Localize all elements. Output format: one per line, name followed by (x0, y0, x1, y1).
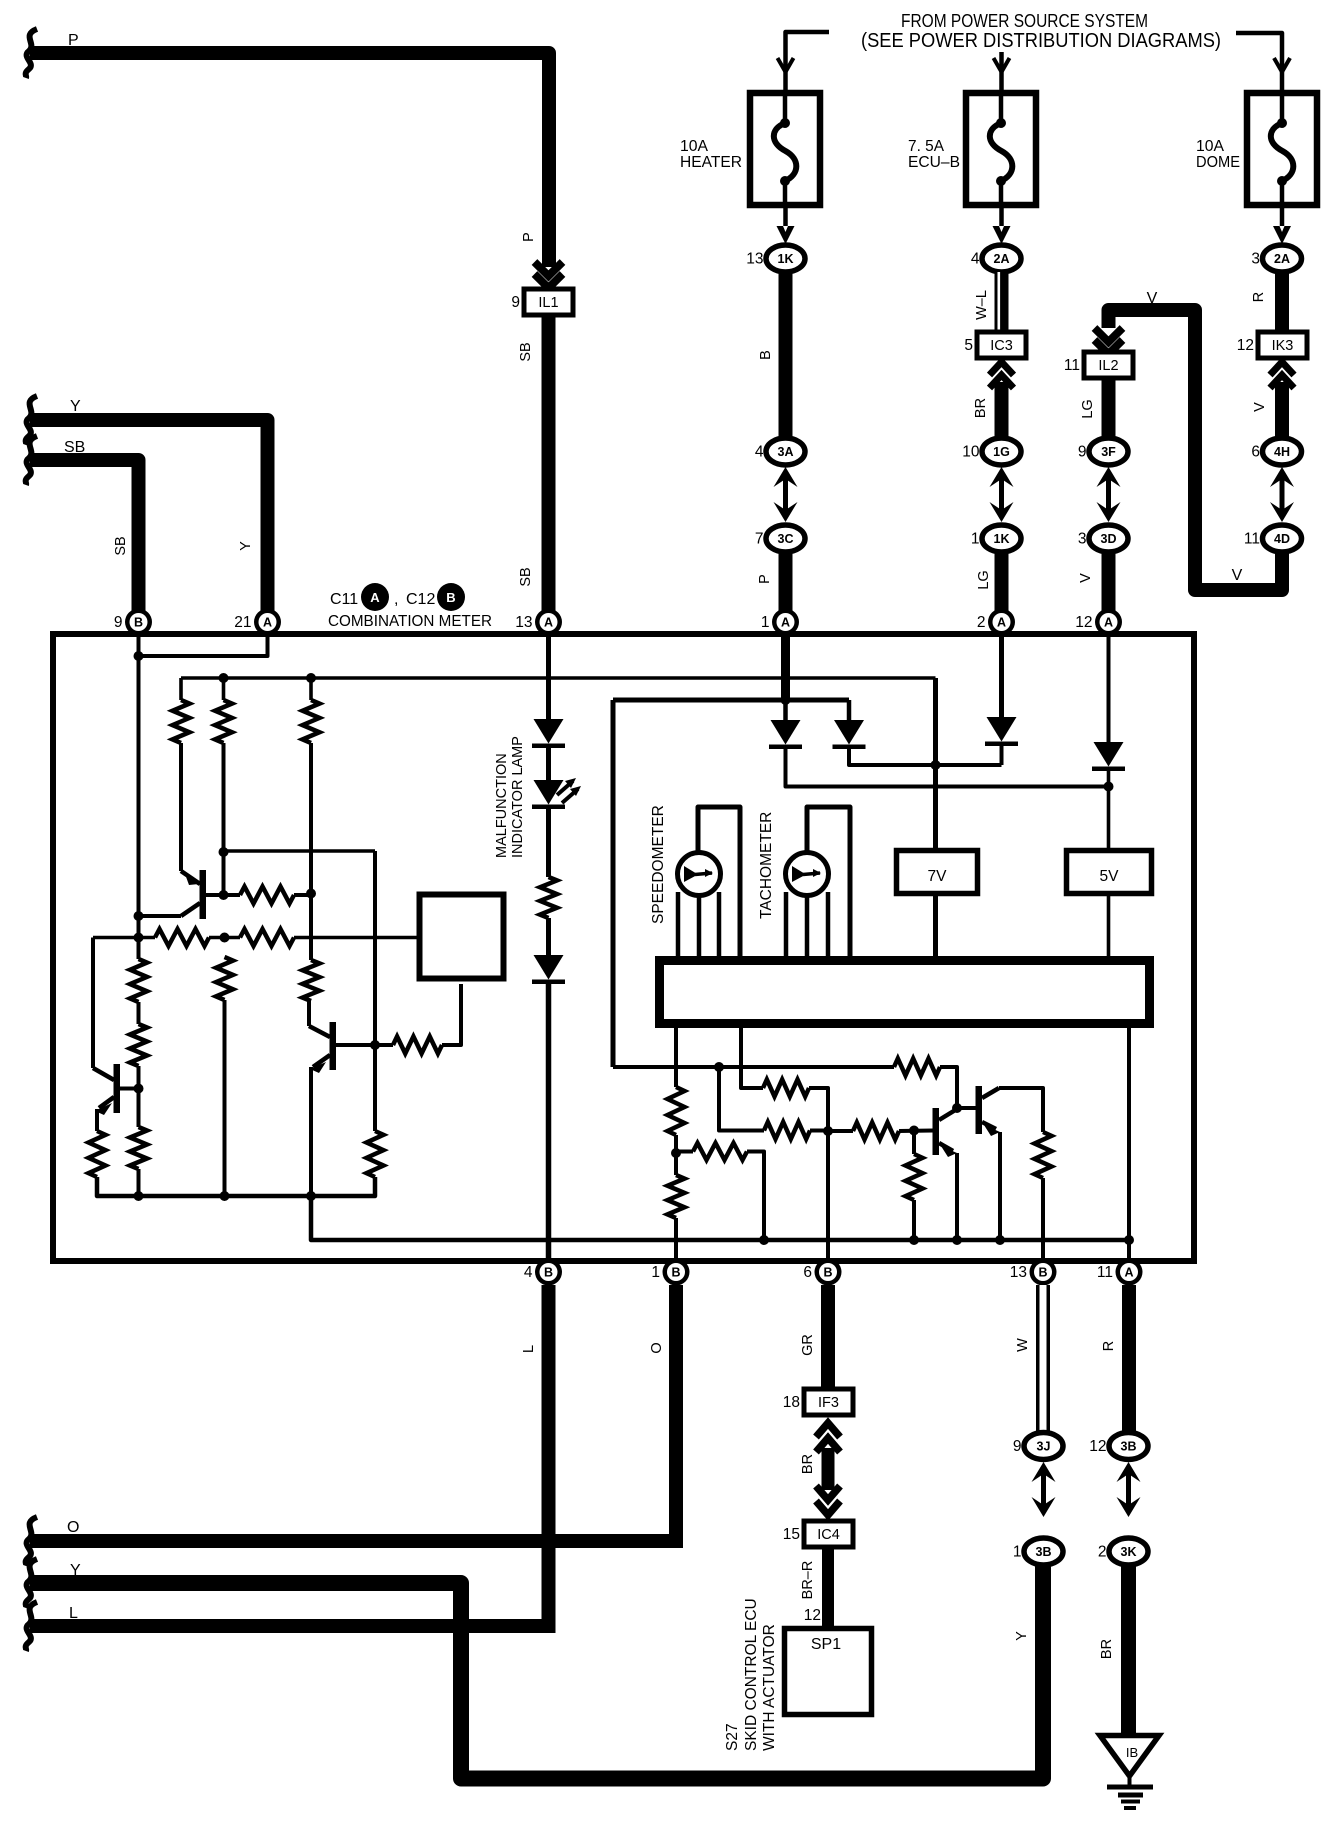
svg-text:A: A (781, 616, 790, 630)
svg-text:4: 4 (524, 1264, 533, 1281)
svg-text:LG: LG (976, 570, 992, 589)
svg-text:1: 1 (761, 614, 770, 631)
svg-text:21: 21 (234, 614, 251, 631)
svg-text:P: P (521, 232, 537, 242)
svg-text:7V: 7V (928, 868, 948, 885)
feed wire to fuse HEATER (786, 32, 830, 92)
svg-text:9: 9 (1013, 1438, 1022, 1455)
fuse 10A DOME (1247, 93, 1317, 205)
svg-text:S27: S27 (724, 1723, 741, 1751)
svg-text:P: P (68, 32, 79, 49)
mating arrows between 3B and 3K (1117, 1462, 1141, 1517)
diode D3 under 1-A (769, 700, 802, 749)
wire divider to rail (909, 1200, 919, 1245)
wire R1 to Q1 emitter (179, 743, 183, 871)
resistor y1130 right (853, 1123, 899, 1140)
transistor Q1 (PNP) (181, 870, 206, 919)
label COMBINATION METER (328, 613, 492, 630)
label SB (vertical) (113, 536, 129, 555)
horizontal line y=937 with R5 R6 (93, 929, 417, 946)
wire B from 1K to 3A (779, 272, 793, 438)
diode D6 under 12-A (1092, 742, 1125, 771)
wire L to harness (left) (26, 1602, 556, 1651)
svg-text:HEATER: HEATER (680, 154, 742, 171)
svg-text:4: 4 (971, 251, 980, 268)
svg-text:IK3: IK3 (1272, 338, 1294, 354)
wire GR from pin 6-B to IF3 (821, 1285, 835, 1389)
label S27 SKID CONTROL ECU WITH ACTUATOR (724, 1598, 778, 1751)
svg-text:C12: C12 (406, 591, 435, 608)
svg-text:3D: 3D (1101, 532, 1117, 546)
junction connector IF3 pin 18 (783, 1389, 853, 1415)
svg-text:FROM POWER SOURCE SYSTEM: FROM POWER SOURCE SYSTEM (901, 11, 1148, 31)
svg-text:1: 1 (651, 1264, 660, 1281)
svg-text:BR: BR (973, 398, 989, 418)
internal bus bar (660, 961, 1150, 1024)
svg-text:10A: 10A (680, 138, 708, 155)
resistor y1130 left (764, 1122, 810, 1139)
svg-text:COMBINATION METER: COMBINATION METER (328, 613, 492, 630)
label W-L (vertical) (974, 290, 990, 320)
svg-text:11: 11 (1244, 531, 1260, 548)
label Y (vertical) (238, 541, 254, 551)
diode D4 under y700 corner (833, 700, 866, 749)
svg-text:ECU–B: ECU–B (908, 154, 960, 171)
svg-text:SB: SB (113, 536, 129, 555)
wire R from pin 11-A to 3B (1122, 1285, 1136, 1433)
wire MIL to pin 4-B (546, 984, 552, 1259)
svg-text:V: V (1252, 402, 1268, 412)
wire fuse to connector 1K (783, 205, 788, 226)
connector oval 2A pin 3 (1251, 245, 1301, 272)
svg-text:3: 3 (1078, 531, 1087, 548)
mating arrows between 3F and 3D (1097, 467, 1121, 522)
wire L from pin 4-B down (542, 1285, 556, 1626)
transistor Q3 (NPN) (93, 1064, 120, 1115)
svg-text:3F: 3F (1101, 445, 1116, 459)
connector oval 3C pin 7 (755, 525, 805, 552)
connector oval 3D pin 3 (1078, 525, 1128, 552)
wire LED to resistor (546, 809, 551, 877)
wire SB from IL1 to combination meter pin 13-A (542, 315, 556, 612)
diode D2 (MIL branch bottom) (532, 955, 565, 984)
left rail y=1196 (97, 1177, 375, 1196)
resistor R9 (horizontal) (393, 1037, 442, 1054)
svg-text:BR–R: BR–R (800, 1561, 816, 1600)
label MALFUNCTION INDICATOR LAMP (494, 736, 526, 858)
transistor Qa (NPN) (933, 1108, 958, 1157)
wire bus to tacho drive (741, 1028, 763, 1088)
connector oval 3K pin 2 (1098, 1538, 1148, 1565)
meter pin 1-A (761, 609, 799, 636)
tachometer gauge (786, 807, 851, 958)
label BR-R (vertical) (800, 1561, 816, 1600)
arrow down on DOME feed (1274, 58, 1290, 72)
node R2/y851 line (219, 847, 229, 857)
svg-text:Y: Y (70, 1562, 81, 1579)
svg-text:3K: 3K (1121, 1545, 1137, 1559)
wire x1043 to pin 13-B (1041, 1178, 1045, 1259)
svg-text:13: 13 (746, 251, 763, 268)
svg-text:9: 9 (114, 614, 123, 631)
connector oval 1K pin 1 (971, 525, 1021, 552)
resistor Qa base divider (906, 1131, 923, 1201)
resistor tacho drive (763, 1080, 809, 1097)
label 10A HEATER (680, 138, 742, 171)
regulator box 5V (1067, 851, 1152, 894)
wire O to harness (left) (26, 1517, 683, 1566)
wire down to rail from R (223, 1000, 227, 1196)
svg-text:13: 13 (515, 614, 532, 631)
skid control actuator box SP1 (785, 1629, 872, 1715)
connector oval 4D pin 11 (1244, 525, 1302, 552)
svg-text:15: 15 (783, 1526, 800, 1543)
svg-text:Y: Y (238, 541, 254, 551)
svg-text:12: 12 (1075, 614, 1092, 631)
meter pin 2-A (977, 609, 1015, 636)
meter pin 13-B (1010, 1259, 1057, 1286)
junction connector IC4 pin 15 (783, 1521, 853, 1547)
svg-text:(SEE POWER DISTRIBUTION DIAGRA: (SEE POWER DISTRIBUTION DIAGRAMS) (861, 30, 1221, 52)
inner vertical x=613 (611, 700, 616, 1067)
node 9B line / y937 (134, 933, 144, 943)
wire fuse to connector 2A dome (1280, 205, 1285, 226)
resistor R4 (horizontal) (240, 887, 294, 904)
svg-text:C11: C11 (330, 591, 358, 608)
wire W from pin 13-B to 3J (outline wire) (1036, 1285, 1050, 1433)
svg-text:GR: GR (800, 1334, 816, 1356)
connector oval 2A pin 4 (971, 245, 1021, 272)
svg-text:A: A (544, 616, 553, 630)
svg-text:R: R (1251, 292, 1267, 302)
resistor on R3 line (303, 960, 320, 1001)
svg-text:SB: SB (64, 439, 85, 456)
feed wire to fuse DOME (1236, 33, 1282, 92)
node 1-A / y700 (781, 695, 791, 705)
node 9B/21A junction (134, 651, 144, 661)
meter pin 21-A (234, 609, 281, 636)
feed wire to fuse ECU-B (999, 52, 1004, 92)
svg-text:IB: IB (1126, 1745, 1138, 1760)
svg-text:B: B (134, 616, 143, 630)
svg-text:V: V (1147, 290, 1158, 307)
svg-text:12: 12 (1237, 337, 1254, 354)
svg-text:IF3: IF3 (818, 1395, 839, 1411)
svg-text:4: 4 (755, 444, 764, 461)
transistor Qb (NPN) (976, 1086, 1001, 1136)
LED malfunction indicator lamp (532, 778, 581, 809)
svg-text:L: L (69, 1605, 78, 1622)
svg-text:W–L: W–L (974, 290, 990, 320)
corner into resistor R1 (179, 678, 183, 700)
wire D3 to y786 line (786, 749, 1109, 787)
junction block connector IL2 pin 11 (1064, 352, 1133, 378)
resistor x375 (367, 1131, 384, 1177)
wire bus to 1B chain (674, 1028, 678, 1087)
wire bus right to pin 11-A (1124, 1028, 1134, 1259)
svg-text:A: A (1124, 1266, 1133, 1280)
svg-text:3: 3 (1251, 251, 1260, 268)
label V (vertical, 3D) (1078, 573, 1094, 583)
header text: SEE POWER DISTRIBUTION DIAGRAMS (861, 30, 1221, 52)
svg-text:2A: 2A (994, 252, 1010, 266)
wire V from 3D to meter pin 12-A (1102, 552, 1116, 612)
svg-text:3C: 3C (778, 532, 794, 546)
svg-text:TACHOMETER: TACHOMETER (758, 812, 775, 919)
wire fuse to connector 2A (999, 205, 1004, 226)
svg-text:LG: LG (1080, 399, 1096, 418)
svg-text:5V: 5V (1100, 868, 1120, 885)
resistor R1 (173, 700, 190, 743)
svg-text:P: P (757, 574, 773, 584)
mating arrows between 3A and 3C (774, 467, 798, 522)
svg-text:5: 5 (964, 337, 973, 354)
svg-text:SB: SB (518, 342, 534, 361)
resistor MIL (540, 877, 557, 918)
wire pin 1-A stub (781, 636, 790, 700)
fuse 10A HEATER (750, 93, 820, 205)
svg-text:V: V (1078, 573, 1094, 583)
node rail/311 (306, 1191, 316, 1201)
svg-text:B: B (544, 1266, 553, 1280)
resistor R2 (215, 700, 232, 743)
diode D1 (MIL branch top) (532, 719, 565, 748)
svg-text:V: V (1232, 567, 1243, 584)
svg-text:SB: SB (518, 567, 534, 586)
diode D5 under 2-A (985, 717, 1018, 746)
ground symbol IB (1100, 1736, 1159, 1809)
wire Y harness route (26, 1559, 1043, 1779)
svg-text:IL1: IL1 (538, 295, 558, 311)
wire resistor to D2 (546, 918, 551, 955)
wire Qa emitter to rail (952, 1153, 962, 1245)
label 10A DOME (1196, 138, 1240, 171)
svg-text:SKID CONTROL ECU: SKID CONTROL ECU (743, 1598, 760, 1751)
wire 311 down to lower rail (311, 1196, 1129, 1240)
speedometer gauge (678, 807, 741, 958)
label BR (vertical) (973, 398, 989, 418)
svg-text:B: B (671, 1266, 680, 1280)
node rail/9B (134, 1191, 144, 1201)
resistor 1B chain lower (668, 1153, 685, 1218)
svg-text:10: 10 (962, 444, 980, 461)
meter pin 13-A (515, 609, 562, 636)
wire x375 from y851 to R9 node (373, 851, 377, 1131)
svg-text:INDICATOR LAMP: INDICATOR LAMP (510, 736, 526, 858)
node x828 (823, 1126, 833, 1136)
label P (vertical, above IL1) (521, 232, 537, 242)
svg-text:11: 11 (1097, 1264, 1113, 1281)
svg-text:1K: 1K (778, 252, 794, 266)
arrows up out of IC3 (990, 362, 1014, 388)
arrows up out of IK3 (1270, 362, 1294, 388)
node rail/224 (220, 1191, 230, 1201)
wire D4 to y765 line (849, 749, 1002, 765)
meter pin 4-B (524, 1259, 562, 1286)
svg-text:A: A (370, 590, 380, 605)
meter pin 12-A (1075, 609, 1122, 636)
node rail x764 (759, 1235, 769, 1245)
label C11 circle-A , C12 circle-B (330, 583, 465, 611)
svg-text:Y: Y (1014, 1631, 1030, 1641)
resistor on 9B line lower (130, 1024, 147, 1066)
svg-text:7: 7 (755, 531, 764, 548)
connector oval 3F pin 9 (1078, 438, 1128, 465)
wire P from harness (left) to IL1 (26, 29, 549, 267)
connector oval 3J pin 9 (1013, 1433, 1063, 1460)
wire D6 to 5V box (1107, 771, 1111, 850)
transistor Q2 (NPN) (309, 1001, 336, 1073)
wire x828 node to pin 6-B (826, 1131, 830, 1259)
label Y (vertical, to 3B) (1014, 1631, 1030, 1641)
svg-text:13: 13 (1010, 1264, 1027, 1281)
junction connector IK3 pin 12 (1237, 332, 1307, 358)
resistor Q3 emitter (89, 1131, 106, 1177)
node y765 / 7V feed (931, 760, 941, 770)
wire pin 12-A stub (1107, 636, 1111, 742)
svg-text:SPEEDOMETER: SPEEDOMETER (650, 805, 667, 924)
wire y1067 to Qa collector (940, 1067, 957, 1107)
mating arrows between 3J and 3B (1032, 1462, 1056, 1517)
junction block connector IL1 pin 9 (511, 289, 573, 315)
svg-text:12: 12 (804, 1607, 821, 1624)
arrow into connector 2A (993, 226, 1011, 244)
svg-text:BR: BR (800, 1454, 816, 1474)
regulator box 7V (897, 851, 978, 894)
combination meter outer box (53, 634, 1194, 1261)
label SB below IL1 (518, 342, 534, 361)
svg-text:,: , (394, 591, 398, 608)
svg-text:BR: BR (1099, 1639, 1115, 1659)
wire Q1 collector to 9B line (134, 911, 182, 921)
wire to x828 node (810, 1129, 828, 1133)
wire D5 to y765 (1000, 746, 1004, 765)
resistor x1043 (1035, 1132, 1052, 1178)
svg-text:9: 9 (511, 294, 520, 311)
svg-text:6: 6 (1251, 444, 1260, 461)
wire Qb collector to x1043 (999, 1088, 1043, 1132)
svg-text:B: B (1038, 1266, 1047, 1280)
label pin 12 of SP1 (804, 1607, 821, 1624)
arrow into connector 1K (777, 226, 795, 244)
svg-text:3B: 3B (1121, 1440, 1137, 1454)
svg-text:O: O (649, 1342, 665, 1353)
wire node down from y1067 (719, 1067, 764, 1131)
svg-text:1: 1 (1013, 1544, 1022, 1561)
svg-text:2A: 2A (1274, 252, 1290, 266)
control box (square) (420, 895, 504, 979)
svg-text:SP1: SP1 (811, 1636, 841, 1653)
horizontal supply line y=678 (181, 676, 936, 680)
header text: FROM POWER SOURCE SYSTEM (901, 11, 1148, 31)
label 7.5A ECU-B (908, 138, 960, 171)
svg-text:A: A (1104, 616, 1113, 630)
connector oval 1K pin 13 (746, 245, 805, 272)
wire BR from 3K to ground (1121, 1565, 1136, 1733)
connector oval 3A pin 4 (755, 438, 805, 465)
arrow down on heater feed (778, 58, 794, 72)
wire y678 corner down to 7V (933, 678, 938, 848)
wire Q3 emitter down (95, 1109, 99, 1131)
resistor R3 (303, 700, 320, 743)
wire from pin 21-A joining 9-B line (139, 636, 268, 656)
wire Q2 base line (336, 1040, 393, 1050)
mating arrows between 1G and 1K (990, 467, 1014, 522)
wire Qb emitter to rail (995, 1132, 1005, 1245)
svg-text:18: 18 (783, 1394, 800, 1411)
meter pin 11-A (1097, 1259, 1143, 1286)
wire SB from harness to meter pin 9-B (26, 436, 139, 612)
label R (vertical, 11A) (1101, 1341, 1117, 1351)
meter pin 1-B (651, 1259, 689, 1286)
svg-text:3A: 3A (778, 445, 794, 459)
svg-text:2: 2 (977, 614, 986, 631)
label LG (vertical) (976, 570, 992, 589)
label V (bottom of route) (1232, 567, 1243, 584)
svg-text:6: 6 (803, 1264, 812, 1281)
connector oval 1G pin 10 (962, 438, 1021, 465)
wire from pin 13-A down (MIL branch) (546, 636, 551, 719)
svg-text:9: 9 (1078, 444, 1087, 461)
wire to pin 1-B (674, 1218, 678, 1259)
wire R from 2A to IK3 (1275, 272, 1289, 332)
node Qa collector / Qb base (952, 1103, 962, 1113)
svg-text:B: B (758, 350, 774, 360)
label SB above meter (518, 567, 534, 586)
wire Q3 base to 9B line (120, 1084, 144, 1094)
wire resistor to Qa base (899, 1126, 933, 1136)
svg-text:B: B (446, 590, 455, 605)
horizontal line y=851 (224, 849, 376, 853)
wire LG from IL2 to 3F (1102, 379, 1116, 438)
svg-text:3B: 3B (1036, 1545, 1052, 1559)
stub to resistor R2 top (219, 673, 229, 700)
fuse 7.5A ECU-B (966, 93, 1036, 205)
wire P from 3C to meter pin 1-A (779, 552, 793, 612)
svg-text:R: R (1101, 1341, 1117, 1351)
resistor on 9B line upper (130, 959, 147, 1002)
wire D1 to LED (546, 748, 551, 780)
wire Q1 base to node (206, 893, 240, 897)
node 12A line / y786 (1104, 782, 1114, 792)
svg-text:A: A (263, 616, 272, 630)
wire V route from 4D over to IL2 (1109, 310, 1283, 590)
wire R9 to control box (442, 984, 461, 1045)
wire y937 corner down to Q3 (91, 938, 95, 1069)
svg-text:IL2: IL2 (1098, 358, 1118, 374)
wire Y from harness to meter pin 21-A (26, 396, 268, 612)
svg-text:4H: 4H (1274, 445, 1290, 459)
node y937 / R5-R6 junction (220, 933, 230, 943)
wire R2 bottom segment (222, 743, 226, 895)
wire BR from IC3 to 1G (995, 382, 1009, 438)
arrow into connector 2A dome (1273, 226, 1291, 244)
wire BR-R from IC4 to SP1 (822, 1547, 834, 1626)
label B (vertical) (758, 350, 774, 360)
svg-text:B: B (823, 1266, 832, 1280)
svg-text:3J: 3J (1037, 1440, 1051, 1454)
svg-text:O: O (67, 1519, 79, 1536)
svg-text:Y: Y (70, 398, 81, 415)
wire W-L from 2A to IC3 (two-tone) (995, 272, 1009, 332)
horizontal line y=700 (613, 698, 849, 703)
wire LG from 1K to meter pin 2-A (995, 552, 1009, 612)
junction connector IC3 pin 5 (964, 332, 1026, 358)
resistor y1067 (horizontal) (894, 1059, 940, 1076)
wire 5V to bus (1107, 894, 1111, 958)
label P (vertical) (757, 574, 773, 584)
wire R4 to R3 vertical (294, 889, 316, 899)
